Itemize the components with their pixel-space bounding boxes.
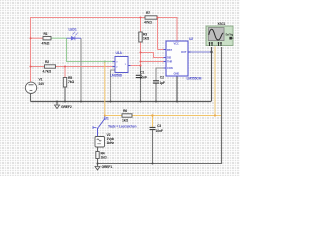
wire R4 bottom to ground: [97, 159, 99, 167]
wire C3 top lead orange: [152, 116, 154, 128]
wire scope B probe down right side: [97, 47, 222, 164]
svg-text:VCC: VCC: [174, 42, 179, 46]
svg-text:LM358D: LM358D: [110, 74, 123, 78]
wire 555 GND pin to rail: [176, 76, 178, 102]
resistor R4 1kOhm vertical: [96, 151, 107, 159]
svg-text:XSC1: XSC1: [218, 22, 226, 26]
svg-text:OUT: OUT: [181, 50, 187, 54]
wire red branch down to R5: [64, 67, 66, 78]
wire red vertical x140 R3 net: [140, 17, 142, 66]
wire 555 VCC drop: [176, 17, 178, 41]
svg-text:Taste = Leerzeichen: Taste = Leerzeichen: [108, 125, 136, 129]
svg-text:1µF: 1µF: [159, 81, 165, 85]
source V2 AC: [95, 133, 114, 147]
wire left red vertical to V1: [30, 17, 32, 82]
svg-text:GREF2: GREF2: [61, 105, 72, 109]
wire U1A output red to node: [128, 65, 141, 67]
svg-text:J1: J1: [105, 117, 109, 121]
op-amp U1A LM358AD: [110, 51, 131, 78]
switch J1 Taste = Leerzeichen: [93, 116, 136, 137]
resistor R3 1kOhm vertical: [139, 32, 150, 42]
junction dots ground rail: [56, 51, 213, 165]
svg-text:CON: CON: [167, 66, 173, 70]
svg-text:V1: V1: [39, 78, 43, 82]
oscilloscope XSC1: [206, 22, 234, 46]
wire red R2 row: [30, 66, 113, 68]
svg-text:RST: RST: [167, 48, 172, 52]
svg-text:GREF1: GREF1: [102, 165, 113, 169]
svg-text:1kΩ: 1kΩ: [143, 36, 149, 40]
resistor R5 7kOhm vertical: [63, 76, 74, 87]
svg-text:U2: U2: [189, 37, 193, 41]
svg-text:R7: R7: [146, 11, 150, 15]
wire green vertical and horizontal into U1A pin3: [67, 38, 113, 61]
capacitor C3 10nF: [150, 124, 163, 133]
LED LED1: [67, 28, 82, 41]
resistor R1 47kOhm: [42, 32, 52, 46]
svg-text:47kΩ: 47kΩ: [144, 21, 152, 25]
wire U1A pin4 ground stub: [111, 70, 116, 102]
junction dots red nets: [30, 17, 159, 68]
svg-text:R6: R6: [123, 109, 127, 113]
svg-text:7kΩ: 7kΩ: [68, 80, 74, 84]
node green junction at orange tap: [104, 61, 106, 63]
source V1 24V: [25, 78, 45, 94]
svg-text:C3: C3: [157, 124, 161, 128]
svg-text:1kΩ: 1kΩ: [101, 156, 107, 160]
svg-text:LED1: LED1: [69, 28, 77, 32]
wire C1 bottom lead: [140, 78, 142, 102]
svg-text:THR: THR: [167, 60, 172, 64]
svg-text:C2: C2: [160, 76, 164, 80]
svg-text:4.7kΩ: 4.7kΩ: [43, 70, 52, 74]
wire orange vertical from green node down to switch row: [104, 62, 106, 116]
wire red vertical x157 to 555 RST: [158, 17, 167, 50]
svg-text:24V: 24V: [39, 82, 45, 86]
wire scope A probe dark: [211, 47, 213, 102]
svg-text:R2: R2: [45, 60, 49, 64]
wire R5 bottom to rail: [64, 87, 66, 102]
capacitor C2 1uF: [153, 76, 165, 85]
ground GREF2: [55, 102, 72, 109]
wire scope yellow probe: [215, 47, 222, 116]
svg-text:C1: C1: [140, 70, 144, 74]
svg-text:DIS: DIS: [167, 56, 171, 60]
wire orange switch row: [105, 115, 215, 117]
capacitor C1 10nF: [136, 70, 147, 79]
wire V1 bottom lead: [30, 94, 32, 102]
svg-text:LM555CM: LM555CM: [187, 77, 202, 81]
wire C3 bottom lead: [152, 130, 154, 164]
resistor R7 47kOhm top: [144, 11, 157, 24]
svg-text:10nF: 10nF: [140, 76, 147, 80]
wire ground rail bottom (dark): [31, 101, 212, 103]
svg-text:GND: GND: [174, 72, 180, 76]
svg-text:Ext Trig: Ext Trig: [226, 33, 234, 36]
wire red R1 row: [30, 37, 43, 39]
wire 555 OUT blue: [188, 51, 211, 53]
svg-text:10nF: 10nF: [156, 129, 163, 133]
junction dots orange net: [104, 114, 216, 116]
wire LED cathode gray vertical: [80, 38, 82, 101]
wire 555 CON pin to C2: [156, 68, 166, 81]
timer U2 LM555CM: [164, 37, 202, 81]
svg-text:R1: R1: [44, 32, 48, 36]
svg-text:1kHz: 1kHz: [107, 141, 115, 145]
svg-text:U1A: U1A: [116, 51, 123, 55]
svg-text:1kΩ: 1kΩ: [122, 119, 128, 123]
resistor R2 4.7kOhm: [43, 60, 56, 74]
resistor R6 1kOhm: [122, 109, 132, 122]
wire C2 bottom lead: [155, 83, 157, 101]
wire V2 bottom to R4: [97, 147, 99, 152]
wire into 555 pin THR: [141, 61, 167, 63]
wire green R1 to LED corner: [51, 37, 67, 39]
wire jog into 555 pin DIS: [141, 53, 167, 58]
svg-text:47kΩ: 47kΩ: [42, 41, 50, 45]
ground GREF1: [95, 165, 112, 170]
wire top VCC rail (red): [30, 17, 177, 19]
wire C1 top lead: [140, 66, 142, 75]
